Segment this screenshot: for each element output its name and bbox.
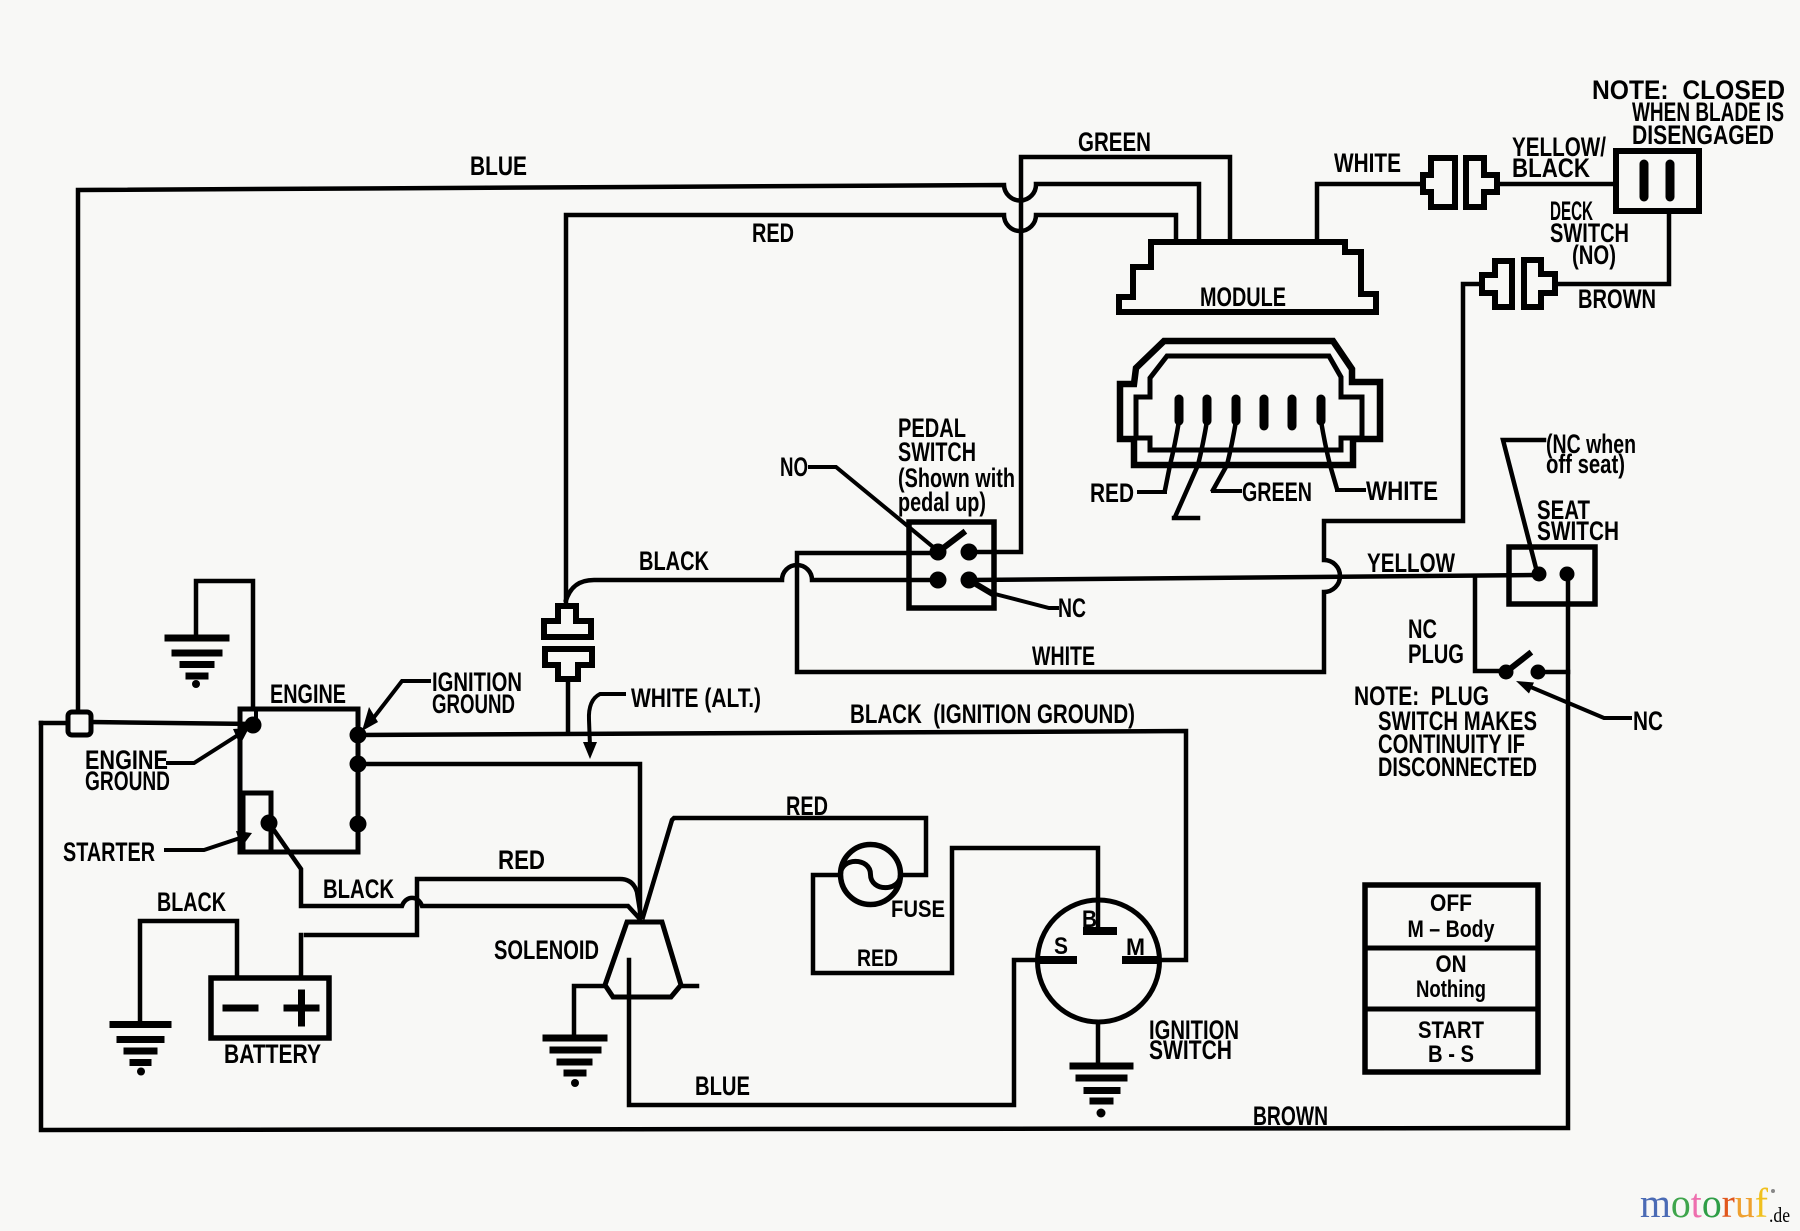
arrowhead white alt <box>583 742 597 759</box>
ignition B wire into circle <box>1096 900 1101 930</box>
module MODULE box <box>1119 242 1376 312</box>
pin 1 RED label dash <box>1139 490 1165 494</box>
svg-text:NC: NC <box>1633 706 1663 736</box>
wire BLUE (left border up to module) <box>78 184 1199 712</box>
svg-text:Nothing: Nothing <box>1416 976 1486 1003</box>
fuse element curve <box>841 861 901 887</box>
NC plug contact left <box>1499 665 1514 680</box>
wire lower plug to pedal NO via WHITE run <box>797 284 1482 672</box>
svg-text:B: B <box>1082 906 1097 933</box>
svg-text:off seat): off seat) <box>1546 449 1625 479</box>
seat leader and arm (NC when off seat) <box>1503 440 1544 572</box>
engine ENGINE box <box>240 709 358 852</box>
svg-text:BLACK: BLACK <box>323 874 394 904</box>
svg-text:ON: ON <box>1436 951 1467 978</box>
pedal NO contact left <box>930 544 947 561</box>
wire BROWN (left border down, bottom run, up to seat switch) <box>41 578 1568 1130</box>
svg-text:WHITE: WHITE <box>1366 476 1438 506</box>
wire RED (battery plus to solenoid) <box>306 879 641 935</box>
wire BLACK (starter to solenoid) <box>269 823 639 918</box>
svg-text:BLACK (IGNITION GROUND): BLACK (IGNITION GROUND) <box>850 699 1135 729</box>
svg-text:RED: RED <box>498 845 545 875</box>
solenoid SOLENOID body <box>605 922 681 997</box>
svg-text:PLUG: PLUG <box>1408 639 1464 669</box>
svg-text:RED: RED <box>857 945 898 972</box>
table divider 1 <box>1365 946 1538 951</box>
pedal NO switch arm <box>938 533 963 552</box>
ground symbol ignition <box>1073 1066 1130 1101</box>
svg-text:M: M <box>1126 934 1145 961</box>
svg-text:WHITE: WHITE <box>1032 641 1095 671</box>
pedal NO contact right <box>961 544 978 561</box>
ground symbol solenoid <box>546 1038 604 1073</box>
wire battery minus to ground <box>140 921 237 1021</box>
wire deck switch to lower plug (BROWN) <box>1555 211 1669 284</box>
wire engine ground hat <box>196 581 253 709</box>
deck switch pin 1 <box>1640 164 1649 197</box>
switch SEAT box <box>1509 547 1595 604</box>
deck switch pin 2 <box>1666 164 1675 197</box>
pin 3 lead to GREEN <box>1213 421 1236 490</box>
arrowhead starter <box>236 831 252 848</box>
svg-text:motoruf: motoruf <box>1640 1180 1768 1226</box>
connector P1 plug half left <box>1423 158 1455 207</box>
starter STARTER box <box>243 793 271 852</box>
wire solenoid left terminal to ground <box>574 986 605 1035</box>
pin 1 <box>1175 399 1184 421</box>
switch IGNITION circle <box>1038 900 1160 1022</box>
svg-text:SWITCH: SWITCH <box>1537 516 1619 546</box>
wire ignition switch to ground <box>1096 1022 1101 1063</box>
connector P1 plug half right <box>1466 158 1497 207</box>
pin 3 GREEN label dash <box>1213 489 1240 493</box>
arrowhead ignition ground <box>362 707 378 731</box>
svg-text:SWITCH: SWITCH <box>1149 1035 1232 1065</box>
svg-text:BLUE: BLUE <box>695 1071 750 1101</box>
wire NC plug branch from yellow <box>1475 577 1502 671</box>
switch PEDAL box <box>909 522 994 608</box>
svg-text:RED: RED <box>752 218 794 248</box>
node engine ground terminal <box>245 717 262 734</box>
wire YELLOW (pedal NC to seat switch) <box>969 575 1533 580</box>
connector J1 outer shell <box>1120 341 1380 465</box>
NC plug arrow leader <box>1526 685 1630 718</box>
svg-text:BATTERY: BATTERY <box>224 1039 321 1069</box>
node engine alt terminal <box>350 756 367 773</box>
wire BLUE (solenoid to ignition S) <box>629 960 1041 1105</box>
table divider 2 <box>1365 1007 1538 1012</box>
svg-text:NO: NO <box>780 452 808 482</box>
svg-text:MODULE: MODULE <box>1200 282 1286 312</box>
leader WHITE ALT arrow <box>589 694 624 746</box>
node engine-ground square connector <box>68 712 91 735</box>
svg-text:FUSE: FUSE <box>891 896 945 923</box>
svg-text:DISCONNECTED: DISCONNECTED <box>1378 752 1537 782</box>
svg-text:pedal up): pedal up) <box>898 487 986 517</box>
wire RED (solenoid to fuse) <box>643 818 926 917</box>
battery minus symbol <box>226 1005 255 1012</box>
battery BATTERY box <box>211 978 329 1038</box>
wire solenoid right tab <box>681 984 697 989</box>
NC plug arrowhead <box>1516 681 1534 694</box>
seat contact right <box>1560 567 1575 582</box>
wire WHITE ALT (engine to solenoid) <box>358 764 640 919</box>
wire square to left border <box>41 721 68 726</box>
svg-text:BROWN: BROWN <box>1578 284 1656 314</box>
ground symbol engine <box>168 638 226 676</box>
connector P3 plug half lower <box>545 649 592 679</box>
svg-text:STARTER: STARTER <box>63 837 155 867</box>
pedal NO leader <box>810 467 938 551</box>
connector P2 plug half right <box>1524 260 1555 307</box>
svg-text:BLACK: BLACK <box>1512 153 1590 183</box>
wire connector to ignition-ground run <box>566 679 571 733</box>
svg-text:WHITE (ALT.): WHITE (ALT.) <box>631 683 761 713</box>
wire BLACK (engine connector to pedal NC) <box>566 565 938 600</box>
svg-text:GROUND: GROUND <box>432 689 515 719</box>
svg-text:BROWN: BROWN <box>1253 1101 1328 1131</box>
connector P2 plug half left <box>1482 261 1512 307</box>
fuse FUSE circle <box>841 845 901 905</box>
seat contact left <box>1532 567 1547 582</box>
svg-text:SOLENOID: SOLENOID <box>494 935 599 965</box>
pin 6 <box>1317 399 1326 421</box>
pin 3 <box>1232 399 1241 421</box>
wire RED (connector to module) <box>566 215 1176 606</box>
arrowhead engine ground <box>233 728 249 745</box>
svg-text:S: S <box>1054 933 1068 960</box>
ground symbol battery <box>113 1025 168 1063</box>
wire GREEN loop (pedal NO to module) <box>969 157 1230 552</box>
wire battery plus terminal <box>299 935 304 978</box>
pin 2 lead stub <box>1174 421 1207 518</box>
wire BLACK ignition ground (engine to ignition M) <box>358 731 1186 960</box>
pedal NC leader <box>991 593 1057 608</box>
svg-text:YELLOW: YELLOW <box>1367 548 1455 578</box>
wire WHITE (module to plug) <box>1317 184 1423 242</box>
svg-text:WHITE: WHITE <box>1334 148 1401 178</box>
svg-text:RED: RED <box>786 791 828 821</box>
node engine lower terminal <box>350 816 367 833</box>
battery plus symbol <box>287 993 316 1023</box>
svg-text:ENGINE: ENGINE <box>270 679 346 709</box>
node ignition ground terminal <box>350 727 367 744</box>
pedal NC contact right <box>961 572 978 589</box>
svg-text:BLACK: BLACK <box>157 887 226 917</box>
wire NC plug to seat vertical <box>1540 670 1568 675</box>
svg-text:B - S: B - S <box>1428 1041 1474 1068</box>
svg-text:GREEN: GREEN <box>1078 127 1151 157</box>
svg-text:(NO): (NO) <box>1572 240 1616 270</box>
pin 6 WHITE label dash <box>1337 488 1364 492</box>
connector J1 inner shell <box>1136 356 1362 450</box>
NC plug contact right <box>1531 665 1546 680</box>
switch DECK box <box>1616 151 1699 211</box>
pin 4 <box>1260 399 1269 426</box>
svg-text:NC: NC <box>1058 593 1086 623</box>
leader ENGINE GROUND arrow <box>168 735 238 763</box>
pedal NC contact left <box>930 572 947 589</box>
ignition terminal S <box>1041 956 1073 964</box>
wire square to engine ground dot <box>91 722 253 724</box>
svg-text:M – Body: M – Body <box>1408 916 1496 943</box>
svg-text:RED: RED <box>1090 478 1134 508</box>
svg-text:.de: .de <box>1769 1203 1790 1227</box>
svg-text:START: START <box>1418 1017 1484 1044</box>
svg-text:BLACK: BLACK <box>639 546 709 576</box>
pin 5 <box>1288 399 1297 426</box>
pin 1 lead to RED <box>1165 421 1179 490</box>
svg-text:GREEN: GREEN <box>1242 477 1312 507</box>
ignition terminal B <box>1087 927 1113 935</box>
pin 2 <box>1203 399 1212 421</box>
engine terminal box top-left <box>240 709 256 727</box>
pin 6 lead to WHITE <box>1321 421 1337 489</box>
svg-text:GROUND: GROUND <box>85 766 170 796</box>
table key box <box>1365 885 1538 1072</box>
svg-text:BLUE: BLUE <box>470 151 527 181</box>
svg-text:OFF: OFF <box>1430 890 1472 917</box>
node starter terminal <box>261 815 278 832</box>
leader STARTER arrow <box>166 838 240 850</box>
connector P3 plug half upper (engine black) <box>544 606 591 637</box>
svg-text:DISENGAGED: DISENGAGED <box>1632 120 1774 150</box>
NC plug switch arm <box>1506 654 1529 672</box>
leader IGNITION GROUND arrow <box>375 681 429 716</box>
pedal NC switch arm <box>969 580 991 593</box>
ignition terminal M <box>1126 956 1157 964</box>
wire plug to deck switch <box>1497 182 1616 187</box>
wire fuse loop to ignition B <box>813 848 1098 973</box>
